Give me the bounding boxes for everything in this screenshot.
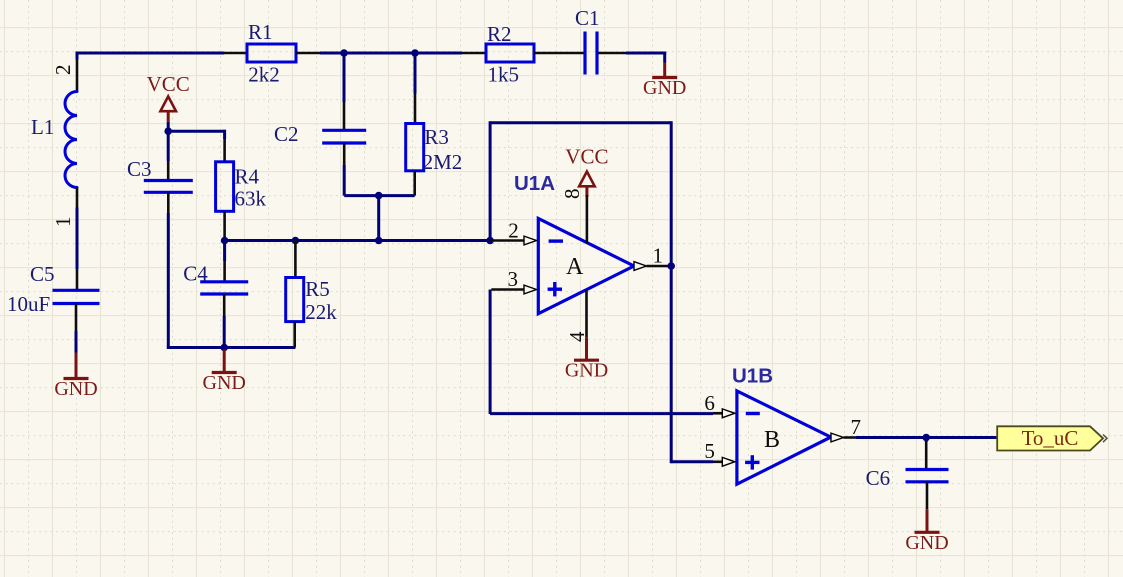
pin R3.1 [414,94,417,124]
junction U1A output [667,262,675,270]
resistor R1 [247,44,296,62]
ground C4 node [223,350,226,373]
pin C5.2 [75,304,78,332]
svg-text:GND: GND [203,372,246,394]
wire top rail left segment [77,52,224,55]
svg-text:U1B: U1B [732,365,773,388]
wire bottom node horizontal [167,346,296,349]
svg-text:C6: C6 [866,466,891,490]
junction pin2 net feedback [486,237,494,245]
svg-text:GND: GND [905,532,948,554]
ground C5 [75,353,78,379]
pin C2.2 [343,143,346,165]
svg-text:10uF: 10uF [7,292,50,316]
resistor R4 [216,162,234,212]
svg-text:U1A: U1A [514,172,555,195]
capacitor C5 [53,289,100,292]
pin U1A.8 [586,195,589,244]
svg-text:GND: GND [565,360,608,382]
pin C4.1 [223,261,226,282]
wire pin3 to U1B pin6 horizontal [490,412,713,415]
svg-text:6: 6 [704,391,715,415]
pin U1B.5 [713,460,724,463]
pin L1.2 [76,60,79,92]
pin U1A.1 arrowhead [634,262,647,271]
svg-text:B: B [764,427,780,453]
svg-text:3: 3 [508,267,519,291]
wire VCC node to R4 corner [168,130,224,133]
op-amp U1B triangle [737,391,831,484]
wire node down to pin2 net [377,196,380,241]
capacitor C4 [200,280,248,283]
svg-text:To_uC: To_uC [1022,426,1079,450]
pin C3.2 [167,192,170,213]
pin C1.2 [597,52,626,55]
svg-text:1k5: 1k5 [488,63,520,87]
pin U1B.6 [713,412,724,415]
junction top rail R3 [411,49,419,57]
pin R2.1 [462,52,486,55]
wire C2 bottom to node [343,165,346,196]
svg-text:R2: R2 [487,22,512,46]
wire C1 GND corner vertical [663,52,666,63]
junction top rail C2 [340,49,348,57]
svg-text:5: 5 [704,439,715,463]
pin U1B.5 arrowhead [722,457,735,466]
pin R5.1 [294,240,297,277]
pin U1A.2 [490,239,524,242]
wire pin2 net horizontal [225,239,491,242]
pin C3.1 [167,161,170,181]
wire U1A output right vertical [670,121,673,463]
capacitor C6 [906,468,949,471]
svg-text:2k2: 2k2 [248,63,279,87]
svg-text:7: 7 [851,415,862,439]
pin R3.2 [413,171,416,196]
op-amp U1A triangle [538,219,634,314]
wire C1 to GND horizontal [626,52,666,55]
wire R1 to R2 segment [320,52,462,55]
junction C6 tap [922,434,930,442]
svg-text:C1: C1 [575,6,600,30]
pin U1A.3 arrowhead [524,285,537,294]
wire R3 top [414,53,417,94]
resistor R3 [406,124,424,171]
svg-text:VCC: VCC [565,145,608,169]
svg-text:22k: 22k [305,300,337,324]
ground C6 [926,509,929,532]
pin C6.2 [926,482,929,510]
pin R4.1 [223,139,226,162]
op-amp U1B plus sign [745,461,759,464]
op-amp U1A minus sign [549,239,563,242]
wire C2 top [343,53,346,102]
junction bottom node C4 [220,344,228,352]
svg-text:L1: L1 [31,115,54,139]
svg-text:2: 2 [51,65,75,76]
resistor R2 [486,44,534,62]
pin R2.2 and C1.1 [534,52,585,55]
pin L1.1 [76,188,79,208]
wire pin3 net vertical [489,290,492,415]
svg-text:R5: R5 [305,277,330,301]
resistor R5 [286,278,304,322]
svg-text:R3: R3 [424,125,449,149]
svg-text:C2: C2 [274,122,299,146]
svg-text:VCC: VCC [147,72,190,96]
wire C4 bottom [223,316,226,348]
capacitor C1 [583,32,586,75]
inductor L1 [65,92,77,188]
wire U1B pin5 corner [671,460,713,463]
svg-text:1: 1 [51,217,75,228]
wire U1A feedback top [490,121,671,124]
svg-text:C3: C3 [127,157,152,181]
pin R4.2 [223,211,226,240]
svg-text:8: 8 [560,189,584,200]
junction VCC node [164,127,172,135]
port To_uC [997,426,1103,450]
pin U1B.7 arrowhead [831,433,844,442]
pin C4.2 [223,294,226,316]
pin U1A.4 [585,290,588,337]
svg-text:R4: R4 [235,165,260,189]
wire C4 top [223,241,226,262]
wire R4 top stub [223,130,226,139]
wire C3 down to bottom node [167,213,170,348]
pin U1A.2 arrowhead [524,236,537,245]
op-amp U1B minus sign [746,412,760,415]
junction C2-R3 node [375,192,383,200]
svg-text:1: 1 [653,244,664,268]
wire C6 top [925,438,928,443]
pin C5.1 [76,269,79,290]
svg-text:R1: R1 [248,20,273,44]
junction pin2 net R4 [221,237,229,245]
pin U1B.6 arrowhead [722,409,735,418]
wire VCC stub [167,122,170,131]
op-amp U1A plus sign [548,288,562,291]
svg-text:C5: C5 [30,262,55,286]
wire VCC node to C3 [167,131,170,161]
pin U1A.1 [647,265,672,268]
pin R1.1 [224,52,247,55]
pin U1B.7 [844,436,857,439]
pin C6.1 [925,442,928,470]
wire C2-R3 node horizontal [344,194,415,197]
ground U1A pin4 [585,337,588,360]
pin C2.1 [343,102,346,130]
junction pin2 net R5 [292,237,300,245]
wire C5 to GND [75,331,78,353]
wire U1A feedback left [489,121,492,240]
wire top-left corner stub [76,52,79,60]
pin R5.2 [293,322,296,348]
pin U1A.3 [491,288,524,291]
svg-text:2: 2 [508,218,519,242]
svg-text:A: A [566,254,584,280]
wire output to port [856,436,997,439]
svg-text:GND: GND [643,77,686,99]
svg-text:C4: C4 [183,262,208,286]
junction pin2 net R3drop [375,237,383,245]
pin R1.2 [296,52,320,55]
svg-text:GND: GND [54,378,97,400]
capacitor C3 [144,179,193,182]
svg-text:2M2: 2M2 [423,150,463,174]
svg-text:63k: 63k [235,187,267,211]
capacitor C2 [322,129,366,132]
ground C1 [663,63,666,78]
wire L1 to C5 [76,208,79,270]
